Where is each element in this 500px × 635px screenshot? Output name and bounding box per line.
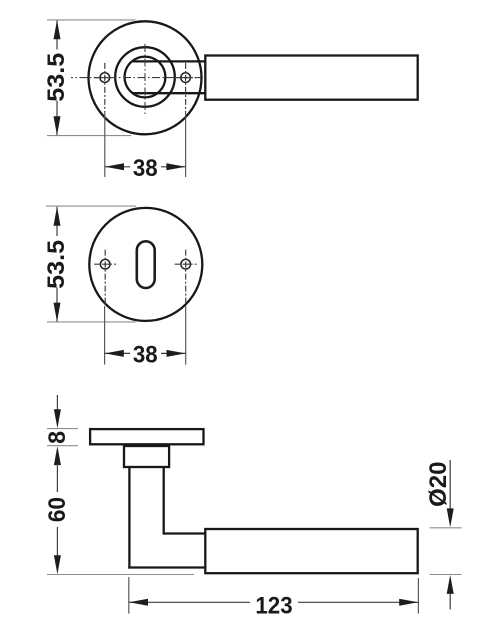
vertical centerline [144,44,146,114]
extension line left [104,306,106,365]
svg-text:38: 38 [133,154,158,181]
extension line top [47,19,136,21]
shaft below [449,593,451,610]
extension tick top [47,428,78,430]
shaft above [449,460,451,510]
svg-text:38: 38 [133,341,158,368]
extension line right [417,578,419,614]
collar outer circle [115,47,175,107]
grip rectangle [205,56,417,100]
dimension line right segment [298,601,418,603]
svg-text:8: 8 [45,431,71,444]
dimension line upper segment [56,207,58,236]
arrow up [54,20,61,39]
dimension 8 [45,395,78,446]
extension line left [128,577,130,614]
dimension 53.5 (top view) [43,20,135,136]
svg-text:60: 60 [44,497,71,522]
escutcheon circle [89,208,202,321]
extension line bottom [47,321,136,323]
svg-text:Ø20: Ø20 [425,462,452,507]
arrow left [105,350,124,357]
dimension 53.5 (middle view) [43,206,136,322]
arrow down [54,303,61,322]
arrow up [54,207,61,226]
extension line right [185,112,187,177]
rose outer circle [89,21,202,134]
collar inner circle [125,57,166,98]
keyhole slot [137,241,155,288]
neck bottom line [133,92,206,94]
left screw crosshair [94,63,117,112]
extension line left [104,112,106,177]
extension line right [185,306,187,365]
arrow left [129,599,148,606]
arrow down [54,555,61,574]
arrow down to top tick [54,409,61,428]
dimension line lower segment [56,101,58,135]
bend bottom horizontal [128,566,205,568]
rose disc (side) [90,429,203,444]
dimension diameter 20 [425,460,462,610]
dimension line upper segment [56,21,58,50]
horizontal centerline [71,77,201,79]
dimension line left segment [105,166,130,168]
arrow right [399,599,418,606]
arrow up to bottom tick of 8 [54,446,61,465]
dimension 38 (top view) [105,112,186,181]
dimension line lower segment [56,288,58,322]
neck left line [128,467,130,569]
arrow down to top tick [447,508,454,527]
arrow left [105,163,124,170]
left screw crosshair [94,250,117,305]
extension tick bottom [47,445,78,447]
dimension line upper segment [56,464,58,492]
shaft above [56,395,58,410]
right screw crosshair [175,250,198,305]
svg-text:53.5: 53.5 [43,53,69,102]
neck right line [163,467,165,535]
dimension line right segment [161,166,185,168]
grip rectangle (side) [205,529,417,573]
arrow up to bottom tick [447,575,454,594]
extension line top [46,205,136,207]
dimension line lower segment [56,527,58,557]
extension line bottom [47,135,131,137]
bend top horizontal [164,532,205,534]
dimension line right segment [161,352,186,354]
arrow right [166,163,185,170]
extension line bottom [47,574,194,576]
collar (side) [124,446,169,467]
right screw crosshair [175,63,198,112]
svg-text:53.5: 53.5 [43,240,69,289]
svg-text:123: 123 [255,592,292,619]
extension tick bottom [430,574,462,576]
dimension line left segment [105,352,130,354]
dimension line left segment [129,601,250,603]
dimension 123 [129,577,419,619]
neck top line [133,60,206,62]
arrow right [167,350,186,357]
dimension 60 [44,446,194,574]
dimension 38 (middle view) [105,306,186,368]
extension tick top [430,527,462,529]
arrow down [54,116,61,135]
